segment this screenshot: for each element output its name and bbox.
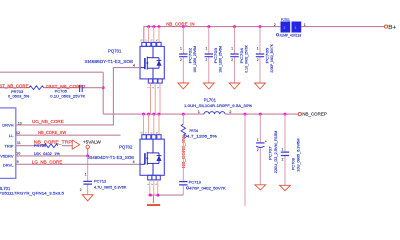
node PQ702 channel dot bbox=[146, 157, 148, 159]
svg-text:1: 1 bbox=[257, 138, 259, 142]
wire input rail NB_CORE_IN left segment bbox=[144, 26, 280, 28]
wire PC713 bottom to bus bbox=[182, 185, 184, 195]
svg-text:1: 1 bbox=[231, 46, 233, 50]
wire PR704 branch upper bbox=[182, 114, 184, 124]
port B+ circle bbox=[384, 25, 387, 28]
svg-text:5: 5 bbox=[155, 132, 159, 134]
pin numbers PQ702 drain 8 7 6 5 bbox=[139, 132, 158, 134]
svg-text:12: 12 bbox=[16, 131, 20, 135]
svg-text:PC704: PC704 bbox=[240, 48, 244, 64]
svg-text:LL: LL bbox=[9, 133, 14, 138]
svg-text:0.1U_0603_25V7K: 0.1U_0603_25V7K bbox=[50, 94, 85, 99]
svg-text:TRIP: TRIP bbox=[4, 143, 13, 148]
wire 5V port stem bbox=[87, 149, 89, 156]
label PC713 value bbox=[186, 187, 188, 189]
svg-text:PL701: PL701 bbox=[204, 97, 217, 102]
svg-text:7: 7 bbox=[144, 132, 148, 134]
power port circle +5VALW feed bbox=[86, 145, 89, 148]
svg-text:+: + bbox=[265, 140, 267, 144]
wire switch node LX rail bbox=[103, 113, 204, 115]
connector jumper PJ701 pads bbox=[281, 22, 291, 33]
svg-text:0_0603_5%: 0_0603_5% bbox=[8, 94, 30, 99]
svg-text:3: 3 bbox=[154, 183, 158, 185]
svg-text:PC707: PC707 bbox=[269, 147, 273, 161]
ground PC712 bbox=[82, 195, 93, 201]
svg-text:2: 2 bbox=[282, 157, 284, 161]
transistor PQ702 body box bbox=[140, 135, 164, 180]
resistor PR703 zigzag bbox=[29, 86, 44, 90]
wire PQ701 drain pin stubs bbox=[149, 27, 159, 43]
svg-text:3: 3 bbox=[156, 87, 160, 89]
svg-text:1: 1 bbox=[198, 110, 200, 114]
svg-text:4: 4 bbox=[133, 63, 135, 67]
svg-text:UG_NB_CORE: UG_NB_CORE bbox=[32, 119, 64, 124]
ground PC704 bbox=[229, 83, 240, 89]
svg-text:8: 8 bbox=[139, 132, 143, 134]
svg-text:4.7U_0805_6.3V6K: 4.7U_0805_6.3V6K bbox=[94, 184, 127, 189]
node junction dot BST cap joins bbox=[102, 86, 105, 89]
svg-text:PC708: PC708 bbox=[291, 158, 295, 170]
capacitor PC704 wire stub bbox=[234, 27, 236, 83]
node junction dots on output rail bbox=[244, 113, 287, 116]
chip UL701 body box bbox=[0, 108, 16, 178]
wire source ground bus bbox=[148, 194, 184, 196]
svg-text:1: 1 bbox=[282, 147, 284, 151]
pin numbers PQ701 drain 8 7 6 5 bbox=[140, 39, 159, 41]
svg-text:220U_D2_2.5VM_R15M: 220U_D2_2.5VM_R15M bbox=[274, 131, 278, 174]
svg-text:+5VALW: +5VALW bbox=[83, 139, 102, 144]
capacitor PC705 wire stub bbox=[259, 27, 261, 83]
svg-text:10U_0805_6.3V6M: 10U_0805_6.3V6M bbox=[296, 138, 300, 171]
wire ground stem bbox=[152, 195, 154, 203]
svg-text:NB_COREP: NB_COREP bbox=[302, 112, 327, 117]
wire PQ702 drain pin stubs bbox=[144, 114, 160, 135]
svg-text:2: 2 bbox=[229, 110, 231, 114]
svg-text:11: 11 bbox=[17, 141, 21, 145]
svg-text:8: 8 bbox=[140, 39, 144, 41]
svg-text:1: 1 bbox=[257, 46, 259, 50]
svg-text:JUMP_43X118: JUMP_43X118 bbox=[279, 33, 302, 38]
pin numbers PQ702 source 1 2 3 bbox=[146, 183, 158, 185]
svg-text:2: 2 bbox=[284, 26, 286, 30]
node junction dots on bus bbox=[149, 194, 152, 197]
svg-text:10: 10 bbox=[16, 151, 20, 155]
label PR704 value bbox=[184, 135, 186, 137]
wire PQ701 source pin stubs to switch node bbox=[151, 83, 161, 114]
node junction dot V5DRV bbox=[86, 154, 89, 157]
transistor PQ701 body box bbox=[140, 42, 164, 83]
wire input rail right segment to B+ bbox=[301, 26, 384, 28]
svg-text:10K_0402_1%: 10K_0402_1% bbox=[34, 151, 60, 156]
op PQ701 mosfet symbol bbox=[141, 47, 162, 79]
pin numbers PQ701 source 1 2 3 bbox=[146, 87, 160, 89]
capacitor PC705 plates bbox=[256, 54, 264, 57]
wire output rail NB_COREP bbox=[225, 113, 298, 115]
svg-text:NB_CORE_SW: NB_CORE_SW bbox=[38, 130, 67, 135]
capacitor PC708 plates bbox=[281, 152, 289, 155]
node PQ701 channel dot bbox=[146, 62, 148, 64]
svg-text:SI4804DY-T1-E3_SO8: SI4804DY-T1-E3_SO8 bbox=[88, 155, 135, 160]
svg-text:PC705: PC705 bbox=[265, 48, 269, 64]
wire corner down to PQ701 pin bbox=[143, 26, 145, 42]
wire BST vertical down to switch node bbox=[102, 72, 104, 114]
svg-text:PC703: PC703 bbox=[214, 48, 218, 64]
capacitor PC713 plates bbox=[179, 182, 187, 185]
capacitor PC702 wire stub bbox=[182, 27, 184, 83]
svg-text:1: 1 bbox=[304, 23, 306, 27]
svg-text:1: 1 bbox=[206, 46, 208, 50]
svg-text:PS51117RGYR_QFN14_3.5x3.5: PS51117RGYR_QFN14_3.5x3.5 bbox=[0, 190, 65, 195]
capacitor PC708 wire stub bbox=[284, 114, 286, 185]
diode PQ701 body diode triangle bbox=[156, 60, 161, 66]
svg-text:1: 1 bbox=[146, 87, 150, 89]
wire TRIP segments bbox=[16, 145, 72, 147]
ground symbol bottom cut bbox=[147, 204, 160, 206]
node junction dots on input rail at caps bbox=[182, 25, 262, 28]
svg-text:470P_0402_50V7K: 470P_0402_50V7K bbox=[189, 186, 226, 191]
capacitor PC704 plates bbox=[230, 54, 238, 57]
svg-text:PC713: PC713 bbox=[189, 179, 202, 184]
resistor PR704 zigzag vertical bbox=[181, 124, 185, 135]
ground PC705 bbox=[255, 83, 266, 89]
svg-text:2200P_0402_50V7K: 2200P_0402_50V7K bbox=[270, 44, 274, 73]
wire between PR704 and PC713 bbox=[182, 135, 184, 181]
svg-text:PR709: PR709 bbox=[34, 143, 47, 148]
wire PQ702 source pin stubs bbox=[150, 180, 158, 195]
svg-text:BST_NB_CORE: BST_NB_CORE bbox=[0, 83, 29, 88]
svg-text:2: 2 bbox=[206, 58, 208, 62]
node junction dots on switch rail bbox=[142, 113, 185, 116]
power port arrow +5VALW on TRIP bbox=[72, 140, 79, 149]
svg-text:2: 2 bbox=[180, 58, 182, 62]
svg-text:6: 6 bbox=[150, 39, 154, 41]
wire DRVL gate drive LG bbox=[16, 163, 140, 165]
svg-text:2: 2 bbox=[274, 23, 276, 27]
svg-text:10U_1206_25V6M: 10U_1206_25V6M bbox=[219, 46, 223, 73]
svg-text:PQ701: PQ701 bbox=[108, 48, 122, 53]
svg-text:LG_NB_CORE: LG_NB_CORE bbox=[32, 160, 63, 165]
diode PQ702 body diode triangle bbox=[156, 155, 161, 161]
svg-text:4: 4 bbox=[133, 160, 135, 164]
wire BST top branch horizontal bbox=[0, 71, 103, 73]
svg-text:1: 1 bbox=[180, 46, 182, 50]
svg-text:B+: B+ bbox=[388, 25, 396, 31]
svg-text:1.0UH_SIL104R-1R0PF_9.5A_30%: 1.0UH_SIL104R-1R0PF_9.5A_30% bbox=[184, 103, 253, 108]
capacitor PC702 plates bbox=[179, 54, 187, 57]
wire V5DRV to junction bbox=[16, 155, 88, 157]
svg-text:PQ702: PQ702 bbox=[119, 144, 133, 149]
svg-text:DRVH: DRVH bbox=[2, 123, 13, 128]
capacitor PC703 wire stub bbox=[208, 27, 210, 83]
svg-text:2: 2 bbox=[231, 58, 233, 62]
capacitor PC712 plates bbox=[83, 181, 92, 184]
svg-text:1: 1 bbox=[295, 26, 297, 30]
svg-text:6: 6 bbox=[150, 132, 154, 134]
svg-text:2: 2 bbox=[257, 148, 259, 152]
capacitor PC707 plates polarized bbox=[256, 142, 264, 144]
ground PC708 bbox=[280, 185, 291, 190]
svg-text:PR704: PR704 bbox=[190, 128, 199, 133]
wire DRVH gate drive UG route bbox=[16, 68, 140, 125]
svg-text:4.7_1206_5%: 4.7_1206_5% bbox=[187, 134, 218, 139]
capacitor PC707 wire stub bbox=[259, 114, 261, 185]
capacitor PC706 series plates bbox=[80, 85, 83, 92]
svg-text:SI4686DY-T1-E3_SO8: SI4686DY-T1-E3_SO8 bbox=[85, 59, 134, 64]
svg-text:PC712: PC712 bbox=[94, 179, 107, 184]
svg-text:5: 5 bbox=[155, 39, 159, 41]
svg-text:9: 9 bbox=[17, 160, 19, 164]
svg-text:PC702: PC702 bbox=[189, 48, 193, 64]
port NB_COREP circle bbox=[298, 113, 301, 116]
capacitor PC703 plates bbox=[205, 54, 213, 57]
ground PC707 bbox=[255, 185, 266, 190]
svg-text:7: 7 bbox=[145, 39, 149, 41]
op PQ702 mosfet symbol bbox=[141, 140, 162, 176]
ground PC702 bbox=[178, 83, 189, 89]
node junction dots on input rail at PQ701 drains bbox=[147, 25, 160, 28]
svg-text:2: 2 bbox=[80, 188, 82, 192]
wire BST resistor branch bbox=[0, 87, 103, 89]
svg-text:NB_CORE_IN: NB_CORE_IN bbox=[166, 21, 194, 26]
inductor PL701 coil bbox=[204, 112, 225, 114]
svg-text:V5DRV: V5DRV bbox=[0, 154, 14, 159]
svg-text:2: 2 bbox=[151, 87, 155, 89]
wire LL stub bbox=[16, 134, 121, 136]
svg-text:10U_1206_25V6M: 10U_1206_25V6M bbox=[193, 46, 197, 73]
svg-text:1: 1 bbox=[85, 173, 87, 177]
svg-text:2: 2 bbox=[257, 58, 259, 62]
svg-text:DRVL: DRVL bbox=[3, 162, 14, 167]
wire sense line down offscreen bbox=[244, 114, 246, 206]
label PJ701 part JUMP_43X118 bbox=[276, 34, 278, 36]
svg-text:PJ701: PJ701 bbox=[281, 17, 290, 22]
svg-text:0.1U_0402_25V6K: 0.1U_0402_25V6K bbox=[244, 45, 248, 73]
resistor PR709 zigzag bbox=[44, 144, 58, 148]
wire down to PC712 bbox=[87, 156, 89, 195]
ground PC703 bbox=[203, 83, 214, 89]
